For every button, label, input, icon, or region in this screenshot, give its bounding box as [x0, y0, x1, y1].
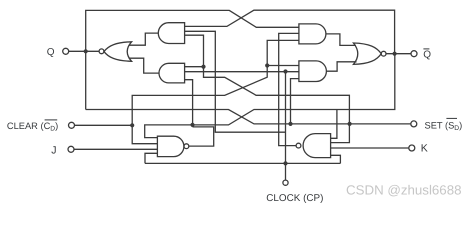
svg-text:CLEAR (CD): CLEAR (CD): [7, 121, 58, 133]
svg-text:CSDN @zhusl6688: CSDN @zhusl6688: [346, 183, 462, 198]
svg-text:SET (SD): SET (SD): [425, 120, 463, 132]
svg-text:J: J: [51, 145, 56, 157]
svg-text:Q: Q: [423, 49, 431, 60]
svg-text:K: K: [421, 143, 428, 155]
svg-text:CLOCK (CP): CLOCK (CP): [266, 193, 323, 204]
svg-text:Q: Q: [47, 47, 55, 58]
